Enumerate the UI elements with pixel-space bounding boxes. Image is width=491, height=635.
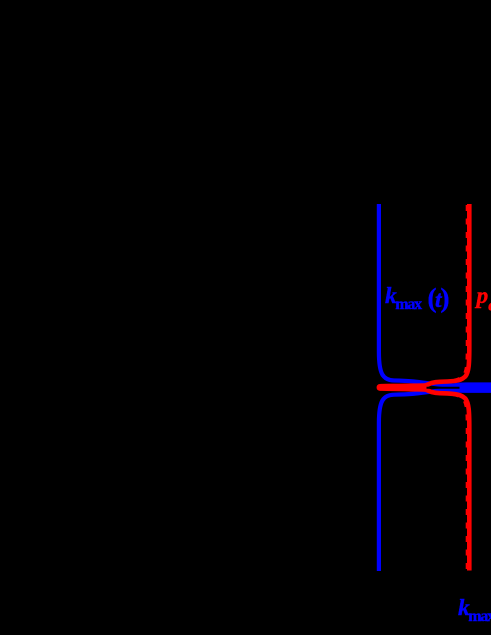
kmax merged thick bar right: [440, 382, 491, 393]
label kmax blue bottom: [458, 597, 491, 623]
red thick bar left with rounded tip: [377, 383, 429, 392]
curve kmax blue upper branch: [379, 204, 462, 386]
red dashed companion lower: [439, 394, 467, 569]
curve p red lower branch: [419, 389, 469, 571]
red dashed companion upper: [439, 205, 467, 381]
curve p red upper branch: [419, 204, 469, 386]
label p red: [477, 285, 491, 316]
black sliver between arms: [427, 387, 460, 389]
curve kmax blue lower branch: [379, 390, 462, 572]
label kmax(t) blue: [385, 283, 450, 311]
